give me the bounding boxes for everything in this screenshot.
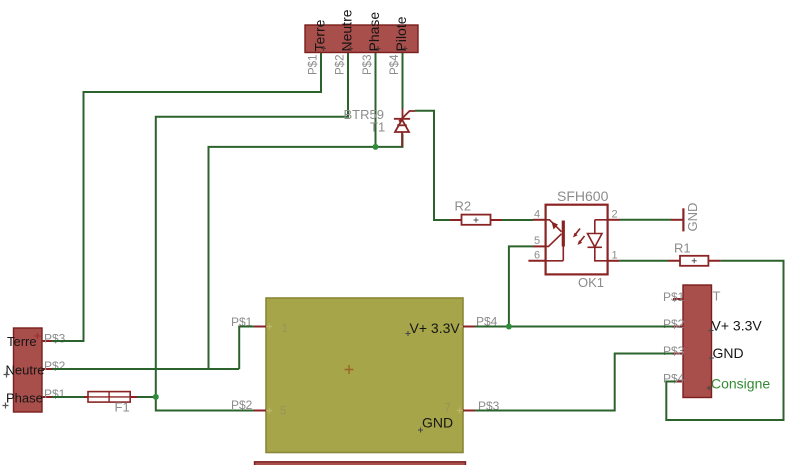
svg-text:Terre: Terre — [312, 19, 328, 51]
svg-text:P$3: P$3 — [44, 331, 66, 345]
svg-text:P$1: P$1 — [308, 55, 320, 75]
label origin cross Terre top — [321, 46, 326, 51]
pin P$2 left connector stub — [42, 368, 52, 370]
pin P$1 top connector stub — [320, 53, 322, 63]
label origin cross Phase left — [3, 403, 9, 409]
svg-text:V+ 3.3V: V+ 3.3V — [410, 320, 461, 336]
svg-text:V+ 3.3V: V+ 3.3V — [712, 318, 763, 334]
module pin 5 stub — [254, 410, 266, 412]
pin P$3 top connector stub — [375, 53, 377, 63]
pin P$1 right stub — [673, 298, 683, 300]
module origin cross — [345, 365, 354, 374]
label origin cross Phase top — [376, 46, 381, 51]
module pin 7 stub — [463, 410, 475, 412]
svg-text:6: 6 — [534, 250, 540, 262]
module U1 body — [266, 298, 463, 453]
svg-text:R1: R1 — [674, 241, 691, 256]
opto photodiode — [588, 220, 608, 261]
opto light arrow 1 — [575, 229, 581, 236]
connector X2 top body — [305, 25, 418, 53]
label origin cross V+ right — [709, 328, 714, 333]
pin P$4 right stub — [673, 381, 683, 383]
pin P$1 left connector stub — [42, 396, 52, 398]
wire fuse to junction — [135, 396, 156, 398]
connector bottom partial body — [255, 462, 466, 465]
ground symbol GND — [671, 208, 683, 231]
svg-text:5: 5 — [534, 235, 540, 247]
svg-text:4: 4 — [534, 209, 540, 221]
opto pin 2 stub — [608, 219, 620, 221]
label origin cross GND module — [418, 428, 423, 433]
wire triac bottom to module pin 1 — [209, 134, 403, 370]
svg-text:SFH600: SFH600 — [557, 188, 609, 204]
svg-text:P$1: P$1 — [663, 290, 685, 304]
label origin cross V+ module — [406, 331, 411, 336]
wire module GND to right connector P$3 — [475, 354, 673, 411]
svg-text:1: 1 — [282, 323, 288, 335]
wire Pilote net — [402, 53, 404, 109]
optocoupler OK1 box — [546, 205, 608, 275]
wire Terre net — [52, 53, 321, 341]
svg-text:P$3: P$3 — [663, 344, 685, 358]
module pin 1 stub — [254, 326, 266, 328]
svg-text:Pilote: Pilote — [393, 16, 409, 51]
svg-text:T: T — [713, 289, 721, 304]
junction dot fuse — [153, 394, 159, 400]
wire Phase net — [375, 53, 377, 147]
svg-text:P$4: P$4 — [389, 54, 401, 75]
wire junction to module pin 5 — [156, 397, 254, 411]
module pin 4 stub — [463, 326, 475, 328]
pin P$4 top connector stub — [402, 53, 404, 63]
svg-text:1: 1 — [612, 250, 618, 262]
opto pin 5 stub — [533, 245, 546, 247]
svg-text:2: 2 — [612, 209, 618, 221]
wire V+ net — [475, 246, 673, 326]
opto pin 4 stub — [533, 219, 546, 221]
opto internal LED — [546, 220, 564, 261]
svg-text:P$1: P$1 — [44, 387, 66, 401]
connector X1 left body — [14, 328, 43, 412]
svg-text:P$2: P$2 — [44, 359, 66, 373]
svg-text:OK1: OK1 — [578, 275, 604, 290]
opto pin 6 stub — [528, 260, 545, 262]
opto LED arrowhead — [552, 222, 559, 230]
svg-text:5: 5 — [280, 406, 286, 418]
wire Neutre net vertical — [156, 53, 348, 397]
junction dot V+ — [506, 324, 512, 330]
pin P$2 top connector stub — [347, 53, 349, 63]
pin P$3 right stub — [673, 353, 683, 355]
label origin cross Terre left — [35, 333, 41, 339]
label origin cross Consigne — [707, 386, 712, 391]
svg-text:GND: GND — [422, 415, 453, 431]
wire Neutre left horizontal — [52, 368, 239, 370]
label origin cross Pilote top — [403, 46, 408, 51]
resistor R2 — [450, 215, 502, 225]
opto pin 1 stub — [608, 260, 620, 262]
svg-text:Neutre: Neutre — [6, 363, 45, 378]
svg-text:Terre: Terre — [7, 334, 37, 349]
wire triac gate to R2 — [415, 111, 450, 220]
label origin cross Neutre left — [4, 372, 10, 378]
svg-text:Consigne: Consigne — [711, 376, 770, 392]
label origin cross Neutre top — [348, 46, 353, 51]
svg-text:T1: T1 — [370, 120, 385, 135]
pin P$2 right stub — [673, 326, 683, 328]
wire Phase to fuse — [52, 396, 84, 398]
module pin origin crosses — [266, 324, 463, 414]
svg-text:GND: GND — [713, 345, 744, 361]
wire R2 to optocoupler pin 4 — [502, 219, 533, 221]
svg-text:Phase: Phase — [366, 12, 382, 52]
wire opto pin 2 to GND — [620, 219, 671, 221]
connector X3 right body — [683, 285, 712, 398]
svg-text:Phase: Phase — [6, 391, 43, 406]
svg-text:P$2: P$2 — [663, 317, 685, 331]
svg-text:P$2: P$2 — [335, 55, 347, 75]
pin P$3 left connector stub — [42, 340, 52, 342]
svg-text:7: 7 — [445, 403, 451, 415]
opto light arrow 2 — [579, 236, 585, 243]
svg-text:F1: F1 — [115, 400, 130, 415]
svg-text:R2: R2 — [455, 199, 472, 214]
wire opto pin 1 to R1 — [619, 260, 668, 262]
label origin cross GND right — [709, 356, 714, 361]
triac T1 symbol — [394, 109, 415, 147]
junction dot phase/triac — [373, 144, 379, 150]
resistor R1 — [668, 256, 720, 266]
fuse F1 — [84, 392, 137, 403]
svg-text:GND: GND — [685, 203, 700, 232]
svg-text:Neutre: Neutre — [339, 9, 355, 51]
wire R1 to right connector P$4 — [666, 261, 783, 420]
svg-text:P$3: P$3 — [362, 55, 374, 75]
